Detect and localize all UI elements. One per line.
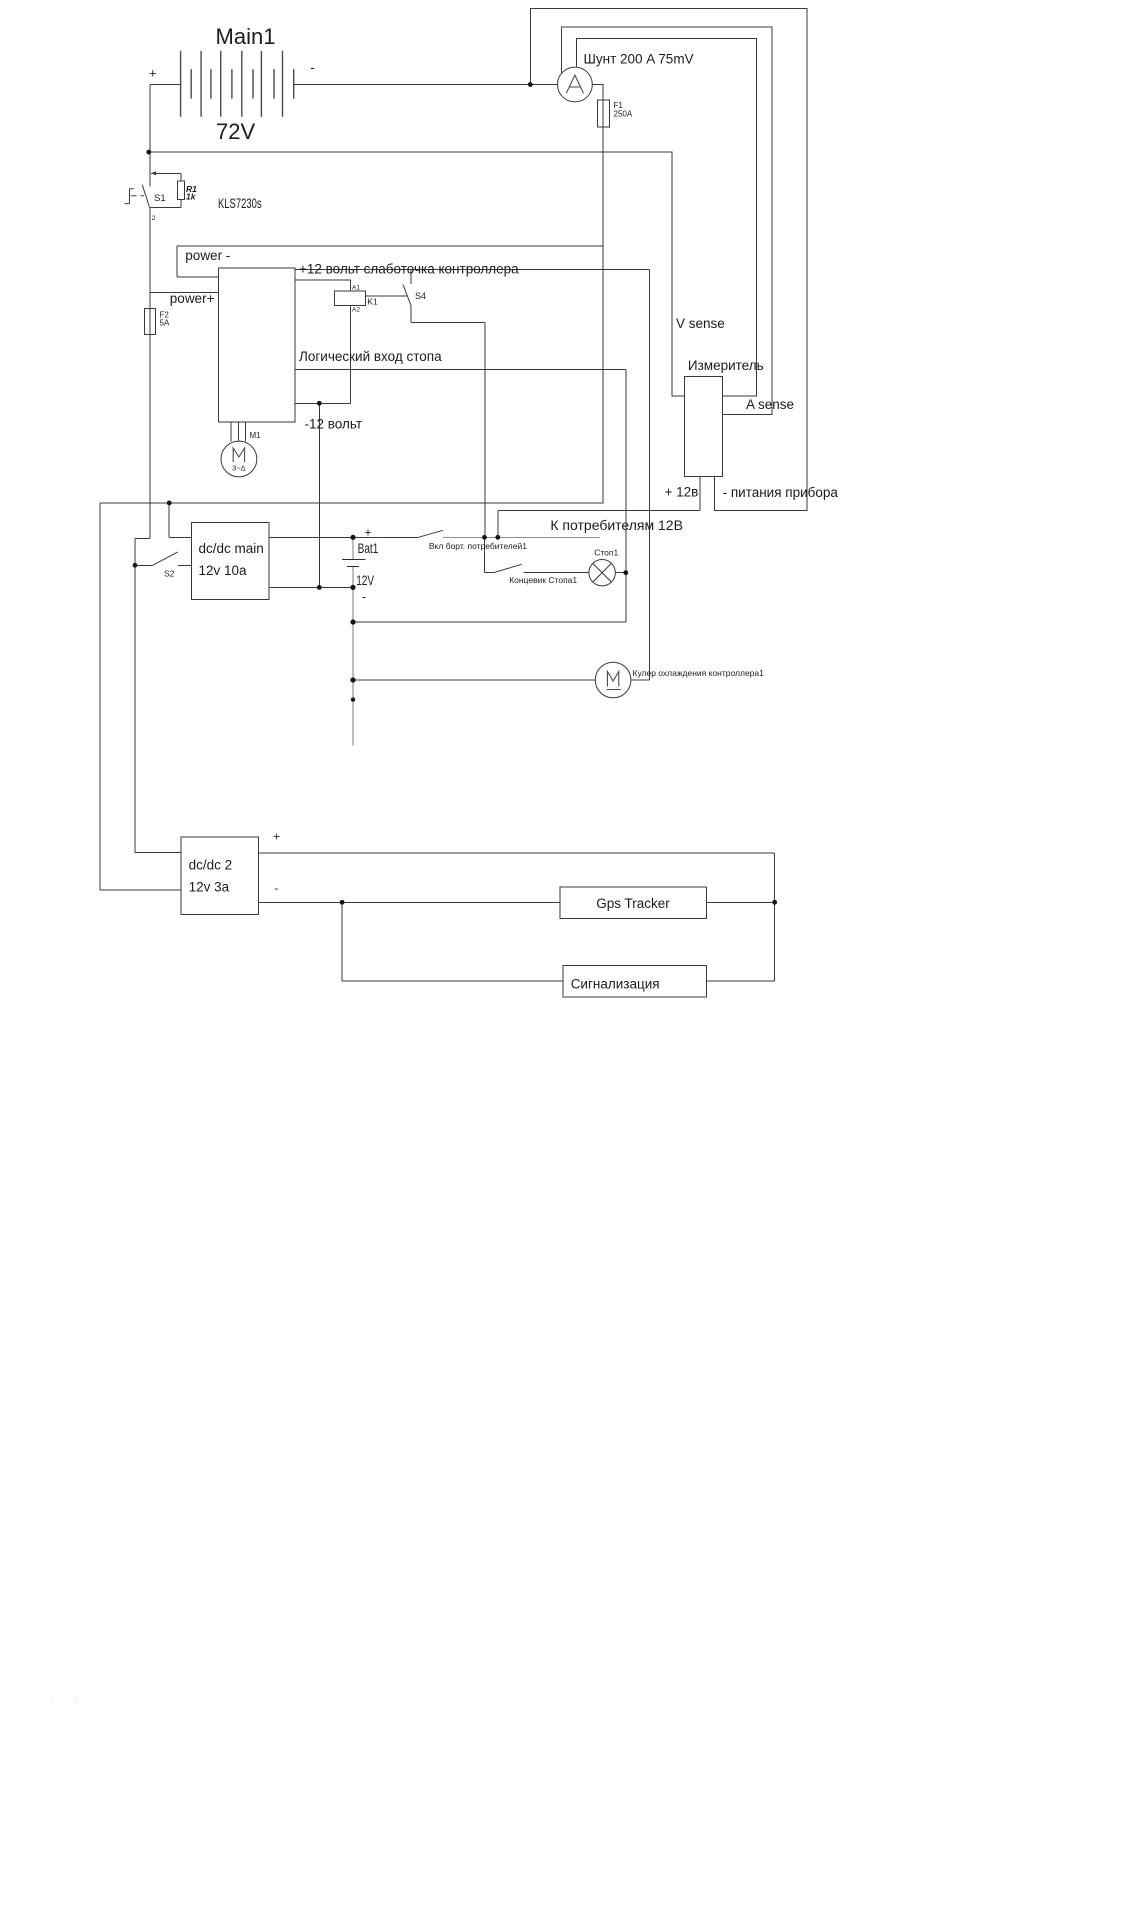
- svg-text:Вкл борт. потребителей1: Вкл борт. потребителей1: [429, 541, 527, 551]
- svg-text:Стоп1: Стоп1: [594, 548, 618, 558]
- svg-text:A sense: A sense: [746, 397, 794, 412]
- svg-text:A2: A2: [352, 306, 360, 313]
- svg-text:Концевик Стопа1: Концевик Стопа1: [509, 575, 577, 585]
- svg-text:power+: power+: [170, 291, 215, 306]
- svg-text:-: -: [310, 59, 315, 75]
- svg-text:Gps Tracker: Gps Tracker: [596, 896, 670, 911]
- svg-text:KLS7230s: KLS7230s: [218, 196, 262, 211]
- svg-text:250A: 250A: [614, 110, 633, 119]
- svg-text:3~Δ: 3~Δ: [232, 464, 246, 473]
- svg-text:Bat1: Bat1: [358, 540, 379, 556]
- svg-text:2: 2: [152, 215, 156, 222]
- svg-text:M1: M1: [250, 431, 262, 440]
- svg-text:- питания прибора: - питания прибора: [723, 485, 839, 500]
- svg-text:S4: S4: [415, 291, 426, 301]
- svg-text:5A: 5A: [160, 319, 170, 328]
- svg-text:K1: K1: [367, 297, 378, 307]
- svg-text:S2: S2: [164, 569, 175, 579]
- svg-text:Измеритель: Измеритель: [688, 358, 764, 373]
- svg-text:power -: power -: [185, 248, 230, 263]
- svg-text:+ 12в: + 12в: [665, 485, 699, 500]
- svg-text:-12 вольт: -12 вольт: [305, 417, 363, 432]
- svg-text:-: -: [274, 881, 278, 895]
- svg-text:Main1: Main1: [216, 24, 276, 49]
- svg-text:К потребителям 12В: К потребителям 12В: [550, 517, 683, 533]
- svg-text:12V: 12V: [356, 572, 375, 588]
- svg-text:+: +: [364, 526, 371, 540]
- svg-text:-: -: [362, 590, 366, 604]
- svg-text:+12 вольт слаботочка контролле: +12 вольт слаботочка контроллера: [299, 262, 519, 277]
- svg-text:+: +: [273, 830, 280, 844]
- svg-text:Шунт 200 A 75mV: Шунт 200 A 75mV: [584, 52, 694, 67]
- svg-text:S1: S1: [154, 193, 166, 204]
- svg-text:dc/dc 2: dc/dc 2: [189, 858, 233, 873]
- svg-text:72V: 72V: [216, 119, 255, 144]
- svg-text:+: +: [149, 66, 157, 81]
- svg-text:A1: A1: [352, 285, 360, 292]
- svg-text:V sense: V sense: [676, 316, 725, 331]
- svg-text:Кулер охлаждения контроллера1: Кулер охлаждения контроллера1: [633, 668, 765, 678]
- svg-text:Логический вход стопа: Логический вход стопа: [299, 349, 442, 364]
- svg-text:12v 3a: 12v 3a: [189, 880, 230, 895]
- svg-text:1k: 1k: [186, 191, 197, 201]
- svg-text:dc/dc main: dc/dc main: [199, 541, 264, 556]
- svg-text:12v 10a: 12v 10a: [199, 563, 248, 578]
- svg-text:Сигнализация: Сигнализация: [571, 977, 660, 992]
